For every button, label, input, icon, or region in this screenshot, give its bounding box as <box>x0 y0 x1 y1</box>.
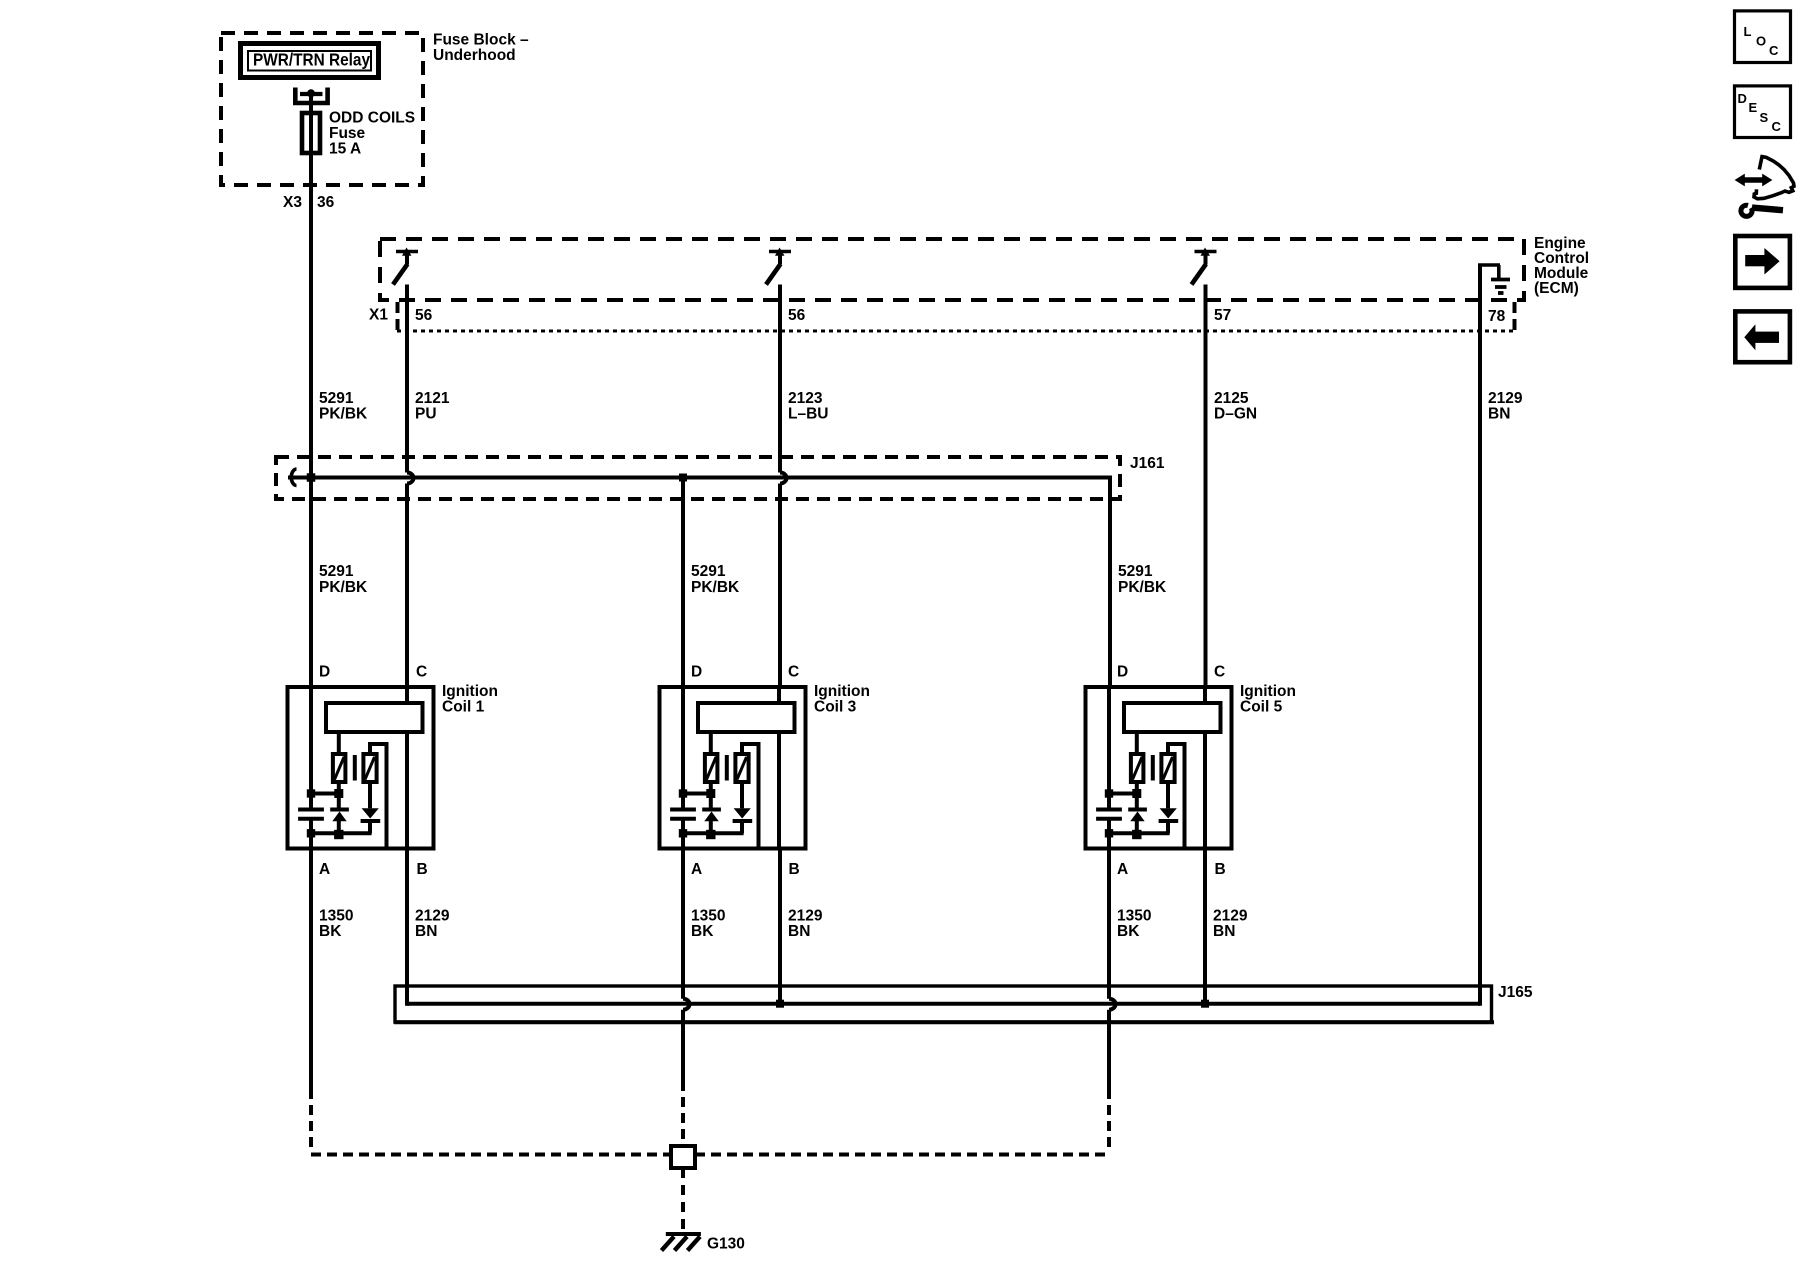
ignition coil 3: down diode (arrow and cathode bar) <box>740 782 744 808</box>
svg-text:2125: 2125 <box>1214 390 1249 407</box>
dashed ground run wire (left, coil 1) <box>311 1153 671 1157</box>
junction dot J161 feed (5291) <box>307 473 316 482</box>
svg-text:S: S <box>1760 110 1769 125</box>
svg-text:E: E <box>1749 100 1758 115</box>
svg-text:BK: BK <box>691 923 714 940</box>
ignition coil 5: wire pin D inside module <box>1107 688 1111 810</box>
wire 2129 BN coil 3 pin B to J165 <box>778 851 782 1004</box>
wire ECM driver to pin 56 (second) <box>778 285 782 332</box>
wire 1350 BK coil 1 pin A (solid then dashed to ground run) <box>309 819 313 1089</box>
svg-text:PU: PU <box>415 406 437 423</box>
svg-text:78: 78 <box>1488 308 1506 325</box>
J165 ground bus wire <box>407 1002 1480 1006</box>
ignition coil 5: wire pin C into module <box>1203 688 1207 703</box>
wire J161 branch down to coil 3 pin D <box>681 478 685 689</box>
ignition coil 3: wire module to pin B <box>777 732 781 851</box>
wire 2129 BN coil 5 pin B to J165 <box>1203 851 1207 1004</box>
ECM driver output pin 57 (coil 5 control) <box>1195 250 1217 254</box>
ECM internal ground at pin 78 <box>1478 264 1482 332</box>
ignition coil 3: wire pin C into module <box>777 688 781 703</box>
svg-text:L: L <box>1744 24 1752 39</box>
ignition coil 3: wire winding to diode <box>709 782 713 810</box>
ignition coil 3: secondary output wire to case <box>742 744 759 847</box>
svg-text:5291: 5291 <box>319 563 354 580</box>
svg-text:Coil 1: Coil 1 <box>442 699 485 716</box>
dashed ground run wire (right, coil 5) <box>695 1153 1109 1157</box>
ignition coil 3: primary winding <box>705 754 718 782</box>
X1 connector band (dashed ends and dotted bottom edge) <box>396 302 400 332</box>
ignition coil 5: capacitor <box>1096 808 1122 812</box>
icon double arrow (navigation) <box>1743 177 1764 182</box>
ignition coil 5: secondary output wire to case <box>1168 744 1185 847</box>
svg-text:PK/BK: PK/BK <box>1118 579 1167 596</box>
svg-text:C: C <box>1769 43 1779 58</box>
ignition coil 3: junction dot left <box>679 789 687 797</box>
ignition coil 1: wire winding to diode <box>337 782 341 810</box>
svg-text:BN: BN <box>1488 406 1510 423</box>
svg-text:X1: X1 <box>369 307 388 324</box>
ignition coil 1: wire pin C into module <box>405 688 409 703</box>
svg-text:J161: J161 <box>1130 455 1165 472</box>
svg-text:15 A: 15 A <box>329 141 361 158</box>
ignition coil 5: module box <box>1086 687 1232 849</box>
svg-text:C: C <box>1214 664 1225 681</box>
svg-text:Ignition: Ignition <box>442 683 498 700</box>
J161 splice bus wire <box>288 476 1112 480</box>
svg-text:B: B <box>417 861 428 878</box>
svg-text:X3: X3 <box>283 194 302 211</box>
svg-text:D: D <box>319 664 330 681</box>
svg-text:A: A <box>319 861 330 878</box>
svg-text:2129: 2129 <box>788 908 823 925</box>
J161 bus curl (left end) <box>291 469 296 486</box>
ECM driver output pin 56 (coil 1 control) <box>396 250 418 254</box>
svg-text:ODD COILS: ODD COILS <box>329 110 415 127</box>
ignition coil 1: junction dot winding base <box>334 789 343 798</box>
relay K: PWR/TRN Relay (double border box) <box>241 44 379 78</box>
svg-text:D: D <box>1738 91 1747 106</box>
svg-text:BK: BK <box>319 923 342 940</box>
svg-text:2129: 2129 <box>415 908 450 925</box>
ignition coil 1: down diode (arrow and cathode bar) <box>368 782 372 808</box>
wire 2123 L-BU - ECM pin 56 to coil 3 pin C (hops over J161 bus) <box>778 331 782 473</box>
junction dot J161 branch to coil 3 <box>679 474 687 482</box>
ignition coil 3: capacitor <box>670 808 696 812</box>
splice pack J161 dashed box <box>276 457 1120 499</box>
wire relay pin to fuse <box>309 93 313 113</box>
svg-text:Coil 3: Coil 3 <box>814 699 857 716</box>
svg-text:BN: BN <box>415 923 437 940</box>
fuse block - underhood dashed box <box>221 33 423 185</box>
ignition coil 3: primary module rectangle <box>698 703 795 732</box>
ignition coil 1: core bar <box>353 755 357 781</box>
svg-text:Coil 5: Coil 5 <box>1240 699 1283 716</box>
icon forward arrow glyph <box>1745 255 1765 266</box>
svg-text:Underhood: Underhood <box>433 47 516 64</box>
ignition coil 5: bottom rail wire <box>1109 831 1170 835</box>
svg-text:PK/BK: PK/BK <box>319 579 368 596</box>
icon wrench <box>1741 205 1752 216</box>
splice pack J165 box <box>395 986 1492 1022</box>
icon back arrow button <box>1735 311 1790 362</box>
icon freehand outline (component locator sketch) <box>1754 157 1794 199</box>
junction dot J165 coil 5 ground (2129) <box>1201 1000 1209 1008</box>
ignition coil 3: secondary winding <box>735 754 748 782</box>
svg-text:36: 36 <box>317 194 335 211</box>
icon DESC button box <box>1735 86 1791 138</box>
ignition coil 1: wire module to pin B <box>405 732 409 851</box>
wire ECM driver to pin 56 <box>405 285 409 332</box>
ground symbol G130 <box>666 1232 701 1236</box>
ignition coil 5: junction dot rail left <box>1105 829 1113 837</box>
ignition coil 5: down diode (arrow and cathode bar) <box>1166 782 1170 808</box>
wire 5291 fuse output down to J161 and coil 1 pin D <box>309 155 313 688</box>
ignition coil 1: internal node wire D to winding <box>311 792 339 796</box>
svg-text:2129: 2129 <box>1213 908 1248 925</box>
junction dot J165 coil 3 ground (2129) <box>776 1000 784 1008</box>
svg-text:1350: 1350 <box>319 908 353 925</box>
svg-text:Ignition: Ignition <box>1240 683 1296 700</box>
wire 2129 BN coil 1 pin B to J165 <box>405 851 409 1006</box>
ignition coil 3: core bar <box>725 755 729 781</box>
relay pin terminal clip <box>295 88 327 104</box>
ignition coil 3: junction dot winding base <box>706 789 715 798</box>
wire 2125 D-GN - ECM pin 57 to coil 5 pin C <box>1204 331 1208 688</box>
ignition coil 3: wire module to primary winding <box>709 732 713 754</box>
svg-text:C: C <box>788 664 799 681</box>
svg-text:D–GN: D–GN <box>1214 406 1257 423</box>
ignition coil 5: primary module rectangle <box>1124 703 1221 732</box>
ECM driver output pin 56 (coil 3 control) <box>769 250 791 254</box>
fuse F: ODD COILS 15A body <box>302 113 320 153</box>
ignition coil 1: primary module rectangle <box>326 703 423 732</box>
svg-text:PK/BK: PK/BK <box>691 579 740 596</box>
svg-text:57: 57 <box>1214 307 1231 324</box>
svg-text:5291: 5291 <box>1118 563 1153 580</box>
svg-text:(ECM): (ECM) <box>1534 280 1579 297</box>
ignition coil 1: module box <box>288 687 434 849</box>
ignition coil 1: junction dot rail left <box>307 829 315 837</box>
svg-text:B: B <box>1215 861 1226 878</box>
svg-text:D: D <box>1117 664 1128 681</box>
ignition coil 1: wire pin D inside module <box>309 688 313 810</box>
svg-text:C: C <box>416 664 427 681</box>
svg-text:Fuse Block –: Fuse Block – <box>433 32 529 49</box>
svg-text:O: O <box>1756 34 1766 49</box>
ignition coil 3: junction dot rail left <box>679 829 687 837</box>
wire 2121 PU - ECM pin 56 to coil 1 pin C (hops over J161 bus) <box>405 331 409 473</box>
wire 2129 BN - ECM pin 78 down right side to J165 <box>1478 331 1482 1006</box>
ignition coil 3: module box <box>660 687 806 849</box>
svg-text:J165: J165 <box>1498 984 1533 1001</box>
wire 1350 BK coil 3 pin A (hops over J165 bus, then dashed) <box>681 819 685 999</box>
svg-text:BN: BN <box>1213 923 1235 940</box>
ignition coil 3: internal node wire D to winding <box>683 792 711 796</box>
ignition coil 1: wire module to primary winding <box>337 732 341 754</box>
wire 1350 BK coil 5 pin A (hops over J165 bus, then dashed) <box>1107 819 1111 999</box>
svg-text:56: 56 <box>788 307 806 324</box>
ignition coil 1: up diode (cathode bar and arrow) <box>330 808 349 812</box>
ignition coil 5: internal node wire D to winding <box>1109 792 1137 796</box>
svg-text:5291: 5291 <box>319 390 354 407</box>
svg-text:Fuse: Fuse <box>329 125 366 142</box>
svg-text:BK: BK <box>1117 923 1140 940</box>
ignition coil 1: secondary winding <box>363 754 376 782</box>
svg-text:56: 56 <box>415 307 433 324</box>
svg-text:2121: 2121 <box>415 390 450 407</box>
icon forward arrow button <box>1735 236 1790 288</box>
wire ECM driver to pin 57 <box>1204 285 1208 332</box>
ignition coil 1: junction dot left <box>307 789 315 797</box>
svg-text:5291: 5291 <box>691 563 726 580</box>
dashed wire eyelet to ground G130 <box>681 1168 685 1231</box>
ignition coil 3: bottom rail wire <box>683 831 744 835</box>
svg-text:A: A <box>1117 861 1128 878</box>
svg-text:2123: 2123 <box>788 390 823 407</box>
engine control module (ECM) dashed box <box>380 239 1524 300</box>
ignition coil 5: core bar <box>1151 755 1155 781</box>
ignition coil 3: up diode (cathode bar and arrow) <box>702 808 721 812</box>
svg-text:PWR/TRN Relay: PWR/TRN Relay <box>253 50 370 70</box>
svg-text:Ignition: Ignition <box>814 683 870 700</box>
ignition coil 5: junction dot left <box>1105 789 1113 797</box>
svg-text:1350: 1350 <box>691 908 725 925</box>
icon LOC button box <box>1735 11 1791 63</box>
ignition coil 1: secondary output wire to case <box>370 744 387 847</box>
svg-text:L–BU: L–BU <box>788 406 828 423</box>
ignition coil 3: wire pin D inside module <box>681 688 685 810</box>
ignition coil 5: wire module to primary winding <box>1135 732 1139 754</box>
ignition coil 1: junction dot rail center <box>334 830 343 839</box>
wire J161 right end down to coil 5 pin D <box>1110 478 1112 689</box>
svg-text:PK/BK: PK/BK <box>319 406 368 423</box>
ignition coil 1: capacitor <box>298 808 324 812</box>
svg-text:B: B <box>789 861 800 878</box>
svg-text:C: C <box>1772 119 1782 134</box>
ground connector eyelet node <box>671 1146 695 1168</box>
ignition coil 5: primary winding <box>1131 754 1144 782</box>
ignition coil 3: junction dot rail center <box>706 830 715 839</box>
svg-text:1350: 1350 <box>1117 908 1151 925</box>
svg-text:G130: G130 <box>707 1236 745 1253</box>
icon back arrow glyph <box>1755 332 1779 343</box>
ignition coil 5: junction dot rail center <box>1132 830 1141 839</box>
svg-text:BN: BN <box>788 923 810 940</box>
ignition coil 5: secondary winding <box>1161 754 1174 782</box>
ignition coil 1: bottom rail wire <box>311 831 372 835</box>
ignition coil 5: junction dot winding base <box>1132 789 1141 798</box>
svg-text:2129: 2129 <box>1488 390 1523 407</box>
svg-text:D: D <box>691 664 702 681</box>
svg-text:A: A <box>691 861 702 878</box>
ignition coil 1: primary winding <box>333 754 346 782</box>
ignition coil 5: up diode (cathode bar and arrow) <box>1128 808 1147 812</box>
ignition coil 5: wire winding to diode <box>1135 782 1139 810</box>
ignition coil 5: wire module to pin B <box>1203 732 1207 851</box>
